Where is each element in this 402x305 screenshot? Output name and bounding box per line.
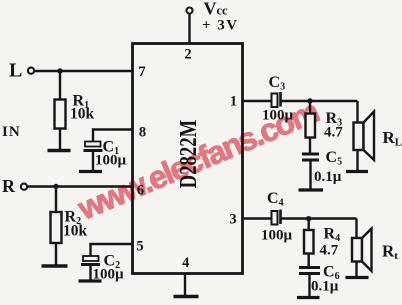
wire C4 to speaker Rt — [282, 217, 357, 219]
capacitor C4 positive plate — [272, 211, 278, 225]
svg-text:IN: IN — [2, 124, 21, 140]
wire Vcc lead — [188, 14, 190, 45]
wire speaker Rt to ground — [355, 262, 357, 277]
Vcc terminal — [187, 8, 193, 14]
svg-text:4.7: 4.7 — [320, 243, 339, 259]
svg-text:L: L — [9, 60, 22, 82]
svg-text:10k: 10k — [63, 223, 88, 240]
wire pin 3 to C4 — [243, 217, 272, 219]
svg-text:7: 7 — [138, 64, 145, 80]
svg-text:3: 3 — [229, 212, 236, 228]
wire R4 to C6 — [308, 254, 310, 267]
wire C1 to ground — [92, 152, 94, 170]
svg-text:R: R — [2, 176, 16, 196]
svg-text:C4: C4 — [267, 190, 284, 209]
capacitor C6 top plate — [299, 266, 320, 269]
speaker RL cone — [364, 112, 375, 161]
svg-text:5: 5 — [136, 239, 143, 255]
capacitor C6 bottom plate — [299, 272, 320, 275]
svg-text:100µ: 100µ — [261, 228, 293, 244]
svg-text:100µ: 100µ — [93, 267, 125, 283]
svg-text:100µ: 100µ — [95, 153, 127, 169]
svg-text:4: 4 — [182, 255, 189, 271]
svg-text:Rt: Rt — [382, 242, 398, 263]
wire pin 1 to C3 — [243, 100, 272, 102]
resistor R4 — [304, 230, 314, 254]
svg-text:100µ: 100µ — [262, 108, 294, 124]
ground pin 4 — [174, 295, 199, 299]
wire R3 top lead — [309, 101, 311, 114]
resistor R1 — [55, 100, 66, 129]
svg-text:6: 6 — [137, 183, 144, 199]
capacitor C3 positive plate — [272, 94, 278, 108]
svg-text:4.7: 4.7 — [324, 125, 343, 141]
ground speaker Rt — [346, 276, 369, 279]
wire C5 to ground — [309, 162, 311, 189]
capacitor C5 top plate — [302, 153, 319, 156]
node pin1 output junction — [307, 98, 312, 103]
svg-text:D2822M: D2822M — [175, 120, 202, 189]
ground C2 — [79, 279, 102, 282]
svg-text:C3: C3 — [269, 74, 286, 93]
wire R input to pin 6 — [27, 185, 132, 187]
node L junction — [57, 68, 62, 73]
resistor R3 — [306, 114, 316, 138]
capacitor C2 negative plate — [81, 263, 100, 266]
svg-text:10k: 10k — [70, 106, 95, 123]
svg-text:2: 2 — [184, 47, 191, 63]
ground C1 — [79, 170, 102, 173]
svg-text:RL: RL — [383, 128, 402, 149]
svg-text:Vcc: Vcc — [204, 0, 229, 19]
capacitor C5 bottom plate — [302, 159, 319, 162]
svg-text:R4: R4 — [324, 226, 341, 245]
wire speaker Rt top lead — [355, 219, 357, 239]
speaker Rt body — [352, 238, 362, 262]
resistor R2 — [51, 212, 62, 243]
svg-text:8: 8 — [139, 125, 146, 141]
capacitor C1 negative plate — [84, 149, 103, 152]
wire pin 5 to C2 — [91, 244, 133, 256]
speaker RL body — [354, 123, 364, 151]
svg-text:0.1µ: 0.1µ — [311, 279, 339, 295]
speaker Rt cone — [362, 229, 372, 272]
svg-text:0.1µ: 0.1µ — [314, 169, 342, 185]
wire C2 to ground — [89, 266, 91, 280]
wire R2 top lead — [55, 187, 57, 213]
wire R4 top lead — [308, 219, 310, 231]
wire speaker RL top lead — [356, 101, 358, 123]
L input terminal — [28, 68, 34, 74]
wire pin 4 to ground — [184, 274, 186, 296]
ground C6 — [297, 296, 320, 299]
op-amp U1 D2822M body — [133, 44, 243, 274]
wire R3 to C5 — [309, 138, 311, 153]
svg-text:+ 3V: + 3V — [202, 18, 239, 34]
svg-text:C5: C5 — [326, 149, 343, 168]
wire pin 8 to C1 — [93, 130, 133, 142]
wire R1 top lead — [59, 71, 61, 100]
wire C3 to speaker RL — [282, 100, 358, 102]
wire speaker RL to ground — [356, 150, 358, 170]
wire R1 to ground — [59, 129, 61, 150]
node pin3 output junction — [306, 216, 311, 221]
capacitor C2 positive plate — [83, 256, 99, 261]
capacitor C4 negative plate — [279, 210, 282, 225]
svg-text:1: 1 — [230, 94, 237, 110]
node R junction — [53, 184, 58, 189]
U1 label D2822M — [175, 120, 202, 189]
ground speaker RL — [346, 170, 368, 173]
wire L input to pin 7 — [34, 70, 132, 72]
capacitor C3 negative plate — [279, 92, 282, 107]
ground C5 — [299, 188, 324, 191]
R input terminal — [21, 184, 27, 190]
wire R2 to ground — [55, 243, 57, 265]
watermark www.elecfans.com — [74, 95, 322, 225]
ground R2 — [42, 264, 68, 267]
capacitor C1 positive plate — [85, 142, 101, 147]
wire C6 to ground — [308, 275, 310, 296]
ground R1 — [48, 149, 71, 152]
